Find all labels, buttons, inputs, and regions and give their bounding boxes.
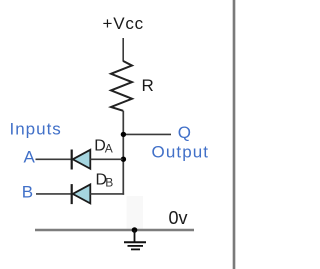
svg-text:A: A [105, 141, 113, 155]
diode DB triangle [73, 184, 91, 203]
svg-text:R: R [142, 76, 154, 95]
wire node to Q [123, 133, 171, 135]
diode DA triangle [73, 150, 91, 169]
ground rail 0v [35, 229, 194, 231]
ground bar 2 [128, 245, 144, 247]
svg-text:B: B [105, 175, 113, 189]
node Q junction dot [121, 132, 126, 137]
diode DA cathode bar [71, 150, 73, 170]
wire diode DA to node [90, 158, 122, 160]
svg-text:B: B [22, 183, 33, 202]
wire B to diode [36, 193, 71, 195]
wire A to diode [36, 158, 71, 160]
svg-text:Q: Q [178, 123, 191, 142]
resistor R [111, 61, 132, 111]
ground bar 1 [124, 241, 146, 243]
wire resistor to node line (down to DB corner) [122, 111, 124, 195]
svg-text:0v: 0v [169, 208, 188, 228]
right border [233, 0, 236, 269]
ground bar 3 [131, 248, 140, 250]
ground stem [134, 230, 136, 242]
wire diode DB to node corner [90, 193, 124, 195]
svg-text:Output: Output [152, 143, 210, 162]
node DA junction dot [121, 157, 126, 162]
faint ghost band above ground [127, 196, 144, 229]
svg-text:Inputs: Inputs [10, 120, 62, 139]
svg-text:+Vcc: +Vcc [103, 14, 144, 33]
wire Vcc to resistor [122, 38, 124, 62]
diode DB cathode bar [71, 184, 73, 204]
svg-text:A: A [24, 148, 36, 167]
ground junction dot [132, 227, 138, 233]
